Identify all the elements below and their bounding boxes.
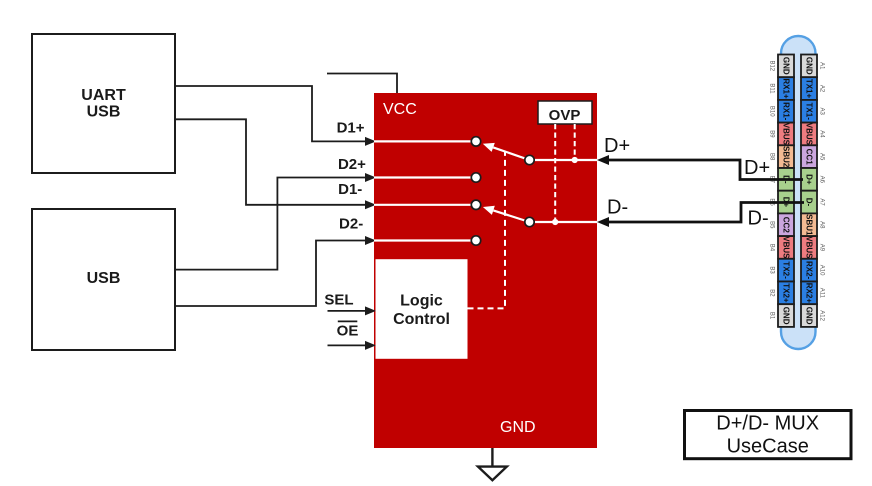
usb-c pin A5 CC1: [801, 145, 817, 168]
usb-c connector body: [781, 36, 816, 349]
svg-text:B3: B3: [769, 266, 775, 274]
switch throw contact D2+: [374, 176, 471, 178]
usb-c pin A6 D+: [801, 168, 817, 191]
svg-text:VCC: VCC: [383, 101, 417, 118]
svg-text:A12: A12: [819, 310, 825, 321]
svg-text:D1+: D1+: [337, 120, 365, 137]
svg-text:A8: A8: [819, 221, 825, 229]
ground symbol: [478, 448, 507, 480]
svg-text:B12: B12: [769, 60, 775, 71]
svg-text:RX2+: RX2+: [805, 283, 814, 304]
usb-c pin A9 VBUS: [801, 236, 817, 259]
usb-c pin A2 TX1+: [801, 77, 817, 100]
svg-text:TX1+: TX1+: [805, 79, 814, 99]
usb-c pin B10 RX1-: [778, 100, 794, 123]
usb-c pin B9 VBUS: [778, 123, 794, 146]
svg-text:GND: GND: [782, 307, 791, 325]
input OE (active low): [328, 344, 367, 346]
switch throw contact D1+: [374, 140, 471, 142]
svg-text:A4: A4: [819, 130, 825, 138]
svg-text:USB: USB: [87, 270, 121, 287]
OVP block: [538, 101, 592, 124]
svg-text:B11: B11: [769, 83, 775, 94]
svg-text:A3: A3: [819, 108, 825, 116]
svg-text:B4: B4: [769, 244, 775, 252]
switch pole D+ (to D1+): [493, 147, 529, 160]
svg-text:Logic: Logic: [400, 293, 443, 310]
usb-c pin A11 RX2+: [801, 282, 817, 305]
svg-text:D-: D-: [805, 198, 814, 207]
dashed control line logic to switches: [468, 151, 506, 308]
svg-text:D+/D- MUX: D+/D- MUX: [716, 413, 819, 435]
svg-text:B1: B1: [769, 312, 775, 320]
wire D+ mux to connector A6: [603, 160, 803, 180]
svg-text:D2-: D2-: [339, 216, 363, 233]
svg-text:D+: D+: [744, 157, 770, 179]
svg-text:D1-: D1-: [338, 181, 362, 198]
svg-text:GND: GND: [500, 419, 536, 436]
usb-c pin B12 GND: [778, 55, 794, 78]
input SEL: [328, 310, 367, 312]
block USB: [32, 209, 175, 350]
usb-c pin A1 GND: [801, 55, 817, 78]
svg-text:UART: UART: [81, 87, 126, 104]
svg-text:A11: A11: [819, 288, 825, 299]
switch pole D- (to D1-): [493, 210, 529, 222]
svg-text:GND: GND: [805, 307, 814, 325]
svg-text:A1: A1: [819, 62, 825, 70]
svg-text:OVP: OVP: [549, 107, 581, 124]
dashed line OVP to D- node: [554, 124, 556, 220]
wire USB to D2+: [175, 178, 366, 270]
svg-text:A5: A5: [819, 153, 825, 161]
usb-c pin B3 TX2-: [778, 259, 794, 282]
svg-text:CC1: CC1: [805, 149, 814, 166]
block D+/D- MUX UseCase: [685, 411, 852, 459]
svg-text:USB: USB: [87, 104, 121, 121]
svg-text:D-: D-: [748, 208, 769, 230]
svg-text:CC2: CC2: [782, 217, 791, 234]
usb-c pin A4 VBUS: [801, 123, 817, 146]
svg-text:B10: B10: [769, 106, 775, 117]
logic control block: [376, 259, 468, 359]
pin arrow D1+: [365, 137, 376, 146]
svg-text:B5: B5: [769, 221, 775, 229]
svg-text:D-: D-: [607, 197, 628, 219]
pin arrow D2-: [365, 236, 376, 245]
usb-c pin A7 D-: [801, 191, 817, 214]
mux IC body: [374, 93, 597, 448]
wire UART to D1-: [175, 119, 366, 205]
svg-text:VBUS: VBUS: [782, 236, 791, 259]
pin arrow D2+: [365, 173, 376, 182]
usb-c pin A3 TX1-: [801, 100, 817, 123]
block UART USB: [32, 34, 175, 173]
junction dot OVP on D- line: [552, 219, 558, 225]
svg-text:TX1-: TX1-: [805, 103, 814, 121]
svg-text:A10: A10: [819, 265, 825, 276]
usb-c pin B1 GND: [778, 304, 794, 327]
svg-text:SBU1: SBU1: [805, 214, 814, 236]
wire UART to D1+: [175, 86, 366, 141]
switch throw contact D2-: [374, 239, 471, 241]
usb-c pin B5 CC2: [778, 213, 794, 236]
svg-text:D+: D+: [604, 135, 630, 157]
svg-text:A9: A9: [819, 244, 825, 252]
svg-text:SEL: SEL: [324, 292, 353, 309]
svg-text:A6: A6: [819, 176, 825, 184]
svg-text:Control: Control: [393, 311, 450, 328]
svg-text:RX1+: RX1+: [782, 78, 791, 99]
usb-c pin B6 D+: [778, 191, 794, 214]
svg-text:RX1-: RX1-: [782, 102, 791, 121]
dashed line OVP to D+ node: [574, 124, 576, 158]
usb-c pin A12 GND: [801, 304, 817, 327]
wire D- mux to connector A7: [603, 203, 804, 223]
svg-text:TX2-: TX2-: [782, 261, 791, 279]
svg-text:TX2+: TX2+: [782, 283, 791, 303]
svg-text:VBUS: VBUS: [782, 123, 791, 146]
svg-text:B2: B2: [769, 289, 775, 297]
svg-text:SBU2: SBU2: [782, 146, 791, 168]
wire VCC supply: [327, 74, 397, 94]
switch throw contact D1-: [374, 204, 471, 206]
svg-text:OE: OE: [337, 323, 359, 340]
usb-c pin A8 SBU1: [801, 213, 817, 236]
usb-c pin A10 RX2-: [801, 259, 817, 282]
svg-text:A7: A7: [819, 198, 825, 206]
svg-text:GND: GND: [805, 57, 814, 75]
usb-c pin B8 SBU2: [778, 145, 794, 168]
pin arrow D1-: [365, 200, 376, 209]
svg-text:GND: GND: [782, 57, 791, 75]
svg-text:B9: B9: [769, 130, 775, 138]
wire USB to D2-: [175, 241, 366, 307]
svg-text:VBUS: VBUS: [805, 123, 814, 146]
svg-text:D+: D+: [805, 174, 814, 185]
svg-text:RX2-: RX2-: [805, 261, 814, 280]
svg-text:VBUS: VBUS: [805, 236, 814, 259]
svg-text:D2+: D2+: [338, 156, 366, 173]
svg-text:A2: A2: [819, 85, 825, 93]
usb-c pin B4 VBUS: [778, 236, 794, 259]
usb-c pin B11 RX1+: [778, 77, 794, 100]
usb-c pin B2 TX2+: [778, 282, 794, 305]
usb-c pin B7 D-: [778, 168, 794, 191]
svg-text:UseCase: UseCase: [727, 435, 809, 457]
junction dot OVP on D+ line: [572, 157, 578, 163]
